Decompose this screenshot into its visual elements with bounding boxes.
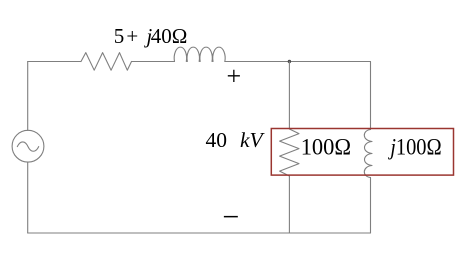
wire middle vertical lower (288, 176, 290, 233)
wire right vertical upper (370, 62, 372, 130)
wire left vertical upper (27, 62, 29, 131)
svg-text:+: + (226, 61, 241, 90)
inductor j40 coils (174, 47, 225, 61)
wire middle vertical upper (288, 62, 290, 130)
resistor 100ohm vertical zigzag (280, 129, 299, 176)
node junction top (288, 60, 291, 63)
source sine symbol (17, 142, 38, 151)
wire top-left horizontal (28, 61, 81, 63)
wire top-right horizontal (225, 61, 371, 63)
wire between resistor and inductor (132, 61, 175, 63)
wire bottom horizontal (28, 232, 371, 234)
inductor j100 vertical coils (364, 130, 372, 178)
svg-text:+: + (126, 24, 138, 48)
svg-text:40: 40 (206, 128, 228, 152)
svg-text:−: − (222, 201, 239, 234)
source Vs circle (12, 130, 44, 162)
red highlight box (271, 129, 453, 176)
svg-text:5: 5 (114, 24, 125, 48)
resistor 5+j40 zigzag (81, 53, 132, 71)
svg-text:100Ω: 100Ω (301, 135, 351, 160)
wire right vertical lower (370, 178, 372, 234)
svg-text:40Ω: 40Ω (151, 24, 188, 48)
svg-text:j100Ω: j100Ω (388, 135, 442, 160)
wire left vertical lower (27, 162, 29, 233)
svg-text:kV: kV (240, 128, 266, 152)
